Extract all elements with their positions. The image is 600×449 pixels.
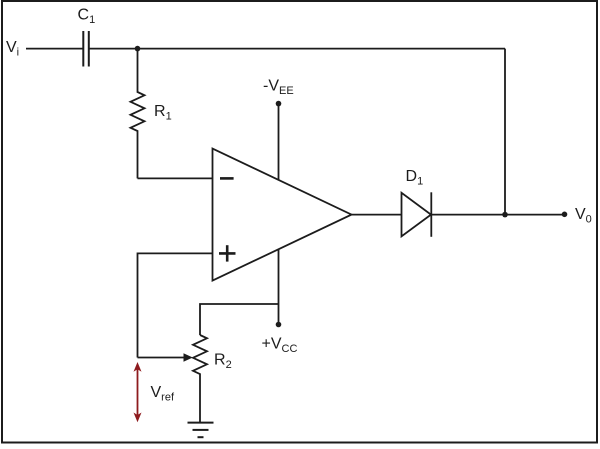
wire [352,214,402,216]
op-amp U1 [213,149,352,281]
wire [26,48,83,50]
capacitor C1 [83,31,89,67]
junction [135,46,141,52]
power +VCC [276,250,282,328]
wire [200,304,279,335]
potentiometer R2 [138,335,208,422]
diode D1 [402,192,432,237]
node V0 [562,212,568,218]
junction [502,212,508,218]
wire [138,177,213,179]
wire [138,253,213,357]
power -VEE [276,101,282,180]
wire [431,214,564,216]
wire [89,48,505,50]
resistor R1 [131,49,145,179]
ground [188,423,214,438]
wire [504,49,506,215]
annotation Vref arrow [134,362,142,422]
